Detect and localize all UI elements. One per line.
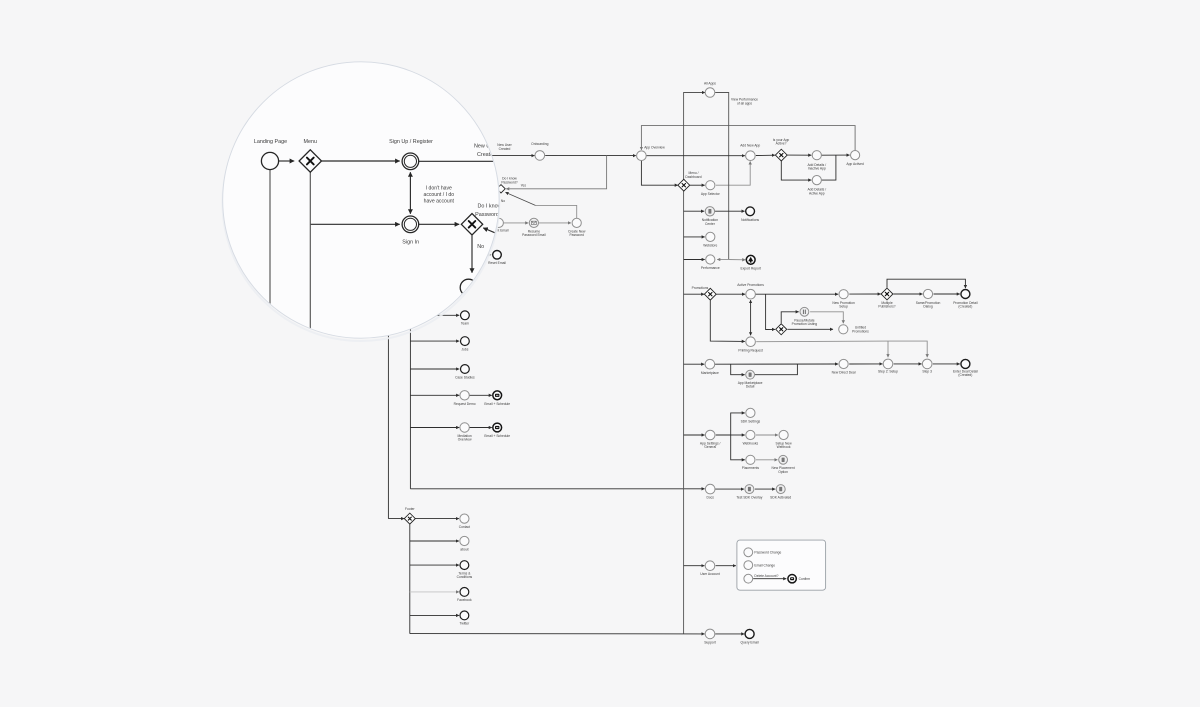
svg-text:Dashboard: Dashboard xyxy=(685,175,701,179)
svg-text:Delete Account?: Delete Account? xyxy=(754,574,778,578)
svg-text:Contact: Contact xyxy=(459,525,470,529)
svg-text:Landing Page: Landing Page xyxy=(254,139,287,145)
svg-text:All Apps: All Apps xyxy=(704,82,716,86)
svg-text:Yes: Yes xyxy=(521,184,527,188)
svg-text:Active Promotions: Active Promotions xyxy=(737,283,764,287)
svg-text:New Direct Deal: New Direct Deal xyxy=(832,370,856,374)
svg-text:Email + Schedule: Email + Schedule xyxy=(484,402,510,406)
svg-text:Setup: Setup xyxy=(839,305,848,309)
svg-text:Webhooks: Webhooks xyxy=(743,441,759,445)
svg-text:Marketplace: Marketplace xyxy=(701,371,719,375)
svg-text:Team: Team xyxy=(461,322,469,326)
svg-text:Add New App: Add New App xyxy=(740,144,760,148)
svg-text:Inactive App: Inactive App xyxy=(808,167,826,171)
svg-text:Password?: Password? xyxy=(501,180,517,184)
svg-text:Export Report: Export Report xyxy=(741,266,761,270)
svg-text:App Overview: App Overview xyxy=(644,146,665,150)
svg-text:Reset Email: Reset Email xyxy=(488,261,506,265)
svg-text:Jobs: Jobs xyxy=(461,347,468,351)
svg-text:Support: Support xyxy=(704,640,716,644)
svg-text:Footer: Footer xyxy=(405,507,415,511)
svg-text:I don't have: I don't have xyxy=(426,185,452,191)
svg-text:Twitter: Twitter xyxy=(460,622,471,626)
svg-text:Email Change: Email Change xyxy=(754,563,775,567)
svg-text:Performance: Performance xyxy=(701,266,720,270)
svg-text:have account: have account xyxy=(424,199,455,205)
svg-text:Printing Request: Printing Request xyxy=(738,348,762,352)
svg-text:Do I know: Do I know xyxy=(478,204,502,210)
svg-text:Created: Created xyxy=(499,147,511,151)
svg-text:Request Demo: Request Demo xyxy=(454,402,476,406)
svg-text:Email + Schedule: Email + Schedule xyxy=(484,434,510,438)
svg-text:Password Change: Password Change xyxy=(754,551,781,555)
svg-text:Active?: Active? xyxy=(776,142,787,146)
svg-text:No: No xyxy=(477,244,484,250)
svg-text:Overview: Overview xyxy=(458,438,472,442)
svg-text:Sign Up / Register: Sign Up / Register xyxy=(389,139,433,145)
svg-text:Notifications: Notifications xyxy=(741,218,759,222)
svg-text:Test SDK Overlay: Test SDK Overlay xyxy=(736,496,762,500)
svg-text:Option: Option xyxy=(778,470,788,474)
svg-text:Onboarding: Onboarding xyxy=(531,142,548,146)
svg-text:(Created): (Created) xyxy=(958,305,972,309)
svg-text:Step 3: Step 3 xyxy=(922,369,932,373)
svg-text:Confirm: Confirm xyxy=(799,577,811,581)
svg-text:General: General xyxy=(704,445,716,449)
svg-text:SDK Settings: SDK Settings xyxy=(741,419,761,423)
svg-text:No: No xyxy=(501,199,505,203)
svg-text:SDK Activated: SDK Activated xyxy=(770,496,791,500)
svg-text:Promotion Listing: Promotion Listing xyxy=(792,322,818,326)
svg-text:Center: Center xyxy=(705,222,716,226)
svg-text:(Created): (Created) xyxy=(958,373,972,377)
svg-text:Sign In: Sign In xyxy=(402,239,419,245)
svg-text:of all apps: of all apps xyxy=(737,101,752,105)
svg-text:Active App: Active App xyxy=(809,191,825,195)
svg-text:Case Studies: Case Studies xyxy=(455,375,475,379)
svg-text:App Actived: App Actived xyxy=(846,162,864,166)
svg-text:account / I do: account / I do xyxy=(424,192,455,198)
svg-text:Password: Password xyxy=(569,233,584,237)
svg-text:App Selector: App Selector xyxy=(701,192,721,196)
svg-text:Webstore: Webstore xyxy=(703,243,717,247)
svg-text:about: about xyxy=(460,547,468,551)
svg-text:Docs: Docs xyxy=(706,496,714,500)
svg-text:Conditions: Conditions xyxy=(457,575,473,579)
svg-text:Promotions: Promotions xyxy=(852,329,869,333)
svg-text:Password Email: Password Email xyxy=(522,233,546,237)
svg-text:Facebook: Facebook xyxy=(457,598,472,602)
svg-text:Webhook: Webhook xyxy=(777,445,791,449)
svg-text:Menu: Menu xyxy=(304,139,318,145)
svg-text:Step 2: Setup: Step 2: Setup xyxy=(878,369,898,373)
svg-text:User Account: User Account xyxy=(700,572,720,576)
svg-text:Publishers?: Publishers? xyxy=(878,305,895,309)
svg-text:Detail: Detail xyxy=(746,385,755,389)
svg-text:Query Email: Query Email xyxy=(741,640,759,644)
svg-text:Placements: Placements xyxy=(742,466,760,470)
svg-text:Promotions: Promotions xyxy=(692,286,709,290)
svg-text:Dialog: Dialog xyxy=(923,305,933,309)
